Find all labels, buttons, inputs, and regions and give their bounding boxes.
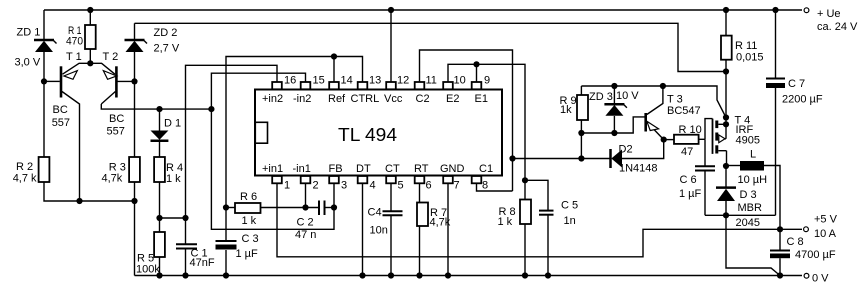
resistor R2 [39, 157, 50, 182]
svg-text:1k: 1k [560, 104, 572, 116]
svg-text:11: 11 [426, 75, 437, 87]
wire R2 bottom to R3 column [44, 182, 135, 201]
svg-text:FB: FB [329, 163, 343, 175]
svg-text:4700 µF: 4700 µF [795, 249, 836, 261]
label 0V [812, 273, 829, 285]
label D1 [164, 118, 181, 130]
label C3 [236, 233, 259, 260]
node -in1 pin2 tap [302, 204, 308, 210]
svg-text:1 k: 1 k [166, 173, 181, 185]
label R3 [102, 162, 126, 185]
wire pin2 stub [305, 184, 307, 208]
svg-text:C1: C1 [479, 163, 493, 175]
wire GND pin7 to ground [447, 184, 449, 276]
svg-text:T 1: T 1 [66, 51, 82, 63]
svg-text:E2: E2 [446, 93, 459, 105]
node ZD3 bottom [611, 130, 617, 136]
svg-text:+ Ue: + Ue [817, 8, 841, 20]
wire R5 stubs [159, 218, 161, 276]
resistor R5 [154, 232, 165, 257]
node rail-R1 [87, 7, 93, 13]
node collectors D2 tap [509, 155, 515, 161]
label C8 [787, 236, 836, 261]
svg-text:ZD 2: ZD 2 [154, 27, 178, 39]
node C3 ground [223, 272, 229, 278]
svg-text:BC: BC [109, 113, 124, 125]
resistor R7 [417, 203, 428, 227]
capacitor C3 [216, 241, 237, 250]
label IC top row [262, 93, 488, 105]
resistor R9 [577, 95, 588, 120]
wire DT pin4 to ground [362, 184, 364, 276]
node R7 ground [416, 272, 422, 278]
wire C1 stubs to ground [185, 218, 187, 276]
label R7 [430, 207, 451, 229]
svg-text:14: 14 [341, 75, 353, 87]
node R8 ground [522, 272, 528, 278]
svg-text:C 5: C 5 [561, 200, 578, 212]
svg-text:3,0 V: 3,0 V [15, 57, 41, 69]
node C1 +in2 junction [182, 215, 188, 221]
diode D2 [611, 149, 623, 168]
svg-text:T 3: T 3 [667, 94, 683, 106]
svg-text:Ref: Ref [328, 93, 346, 105]
node emitters junction [87, 60, 93, 66]
node T2 base [131, 78, 137, 84]
svg-text:T 2: T 2 [103, 51, 119, 63]
node T1 base [41, 78, 47, 84]
svg-text:D 1: D 1 [164, 118, 181, 130]
wire C1 column and +in2 riser to pin 16 [186, 65, 278, 218]
label ZD2 [154, 27, 180, 55]
pin 10 [443, 82, 453, 89]
node T3 emitter R10 junction [661, 137, 667, 143]
wire 0V rail [135, 275, 803, 277]
node DT ground [359, 272, 365, 278]
wire C5 branch [525, 180, 548, 275]
wire R8 bottom to ground [524, 224, 526, 276]
node R11 bottom ZD2 rail [723, 68, 729, 74]
inductor L [740, 161, 764, 171]
svg-text:+5 V: +5 V [814, 214, 838, 226]
svg-text:-in1: -in1 [293, 163, 311, 175]
svg-text:RT: RT [414, 163, 429, 175]
svg-text:16: 16 [284, 75, 296, 87]
capacitor C5 [539, 211, 554, 215]
svg-text:1: 1 [284, 180, 290, 192]
svg-text:CTRL: CTRL [351, 93, 380, 105]
label ZD3 [589, 90, 639, 103]
transistor T1 [44, 63, 90, 201]
svg-text:TL 494: TL 494 [338, 124, 397, 145]
terminal +Ue [804, 8, 809, 13]
pin 14 [329, 82, 339, 89]
label R11 [735, 40, 764, 64]
svg-text:BC: BC [53, 104, 68, 116]
label C4 [368, 207, 388, 237]
svg-text:2200 µF: 2200 µF [782, 94, 823, 106]
svg-text:MBR: MBR [738, 202, 763, 214]
pin 2 [301, 176, 311, 183]
node FB C2 junction [331, 204, 337, 210]
svg-text:R 6: R 6 [240, 191, 257, 203]
svg-text:1 k: 1 k [498, 216, 513, 228]
node R5 ground [156, 272, 162, 278]
zener diode ZD3 [604, 104, 627, 116]
label T2 [103, 51, 125, 138]
svg-text:R 11: R 11 [735, 40, 757, 52]
label R1 [66, 25, 83, 48]
capacitor C1 [176, 244, 197, 248]
resistor R11 [721, 36, 732, 60]
label T4 [735, 115, 760, 147]
svg-text:7: 7 [454, 180, 460, 192]
svg-text:10n: 10n [370, 225, 388, 237]
wire C6 column [704, 139, 706, 215]
svg-text:4,7 k: 4,7 k [13, 173, 37, 185]
svg-text:+in2: +in2 [262, 93, 283, 105]
svg-text:5: 5 [398, 180, 404, 192]
svg-text:CT: CT [385, 163, 400, 175]
node C5 ground [545, 272, 551, 278]
svg-text:GND: GND [440, 163, 465, 175]
svg-text:C4: C4 [368, 207, 382, 219]
wire ZD2 rail to R11 bottom [135, 23, 727, 71]
transistor T3 [646, 86, 664, 140]
wire D3 anode to ground jog [726, 201, 780, 276]
svg-text:10 µH: 10 µH [738, 174, 768, 186]
label T1 [52, 51, 82, 129]
svg-text:C 7: C 7 [788, 78, 805, 90]
wire R1 stubs [89, 10, 91, 63]
svg-text:15: 15 [313, 75, 325, 87]
label R6 [240, 191, 257, 227]
node R9 bottom ZD3 line [578, 130, 584, 136]
svg-text:0,015: 0,015 [736, 52, 764, 64]
svg-text:4,7k: 4,7k [430, 217, 451, 229]
svg-text:557: 557 [52, 117, 70, 129]
svg-text:4: 4 [370, 180, 376, 192]
svg-text:C2: C2 [416, 93, 430, 105]
svg-text:470: 470 [66, 36, 83, 48]
wire R4 bottom to R5/C1 row [160, 182, 186, 218]
svg-text:ZD 3: ZD 3 [589, 91, 613, 103]
capacitor C4 [383, 211, 403, 215]
svg-text:D 3: D 3 [740, 189, 757, 201]
wire source line y86 [581, 86, 726, 118]
wire Ref-CTRL line down to R6/C3 [226, 57, 363, 208]
svg-text:100k: 100k [136, 264, 160, 276]
zener diode ZD2 [125, 40, 148, 52]
wire R10 left stub [664, 139, 674, 141]
wire ZD1 column [43, 10, 45, 157]
node source lead [723, 121, 729, 127]
wire -in2 pin15 to FB link [211, 73, 334, 229]
wire D3 cathode stub [725, 166, 727, 187]
svg-text:E1: E1 [475, 93, 488, 105]
wire R10 right to gate [699, 138, 705, 140]
wire C2 right to FB column [325, 207, 335, 209]
mosfet T4 [713, 119, 727, 154]
svg-text:ca. 24 V: ca. 24 V [817, 21, 858, 33]
pin 8 [472, 176, 482, 183]
label R10 [679, 124, 702, 158]
node rail-R11 [723, 7, 729, 13]
wire ground return line y215 [705, 214, 776, 216]
svg-text:BC547: BC547 [667, 105, 701, 117]
label T3 [667, 94, 701, 118]
svg-text:2045: 2045 [736, 217, 760, 229]
svg-text:2,7 V: 2,7 V [154, 43, 180, 55]
node C4 ground [388, 272, 394, 278]
node C8 ground [777, 272, 783, 278]
svg-text:9: 9 [484, 75, 490, 87]
label +5V [814, 214, 838, 241]
label C6 [679, 174, 702, 200]
svg-text:R 10: R 10 [679, 124, 702, 136]
op-amp U1 TL494 body [255, 90, 502, 176]
label C7 [782, 78, 823, 106]
svg-text:13: 13 [369, 75, 381, 87]
pin 1 [272, 176, 282, 183]
wire D1 cathode to R4 [159, 109, 161, 157]
label R8 [498, 206, 516, 228]
node T3 collector top [660, 83, 666, 89]
capacitor C6 [695, 166, 715, 170]
capacitor C2 [319, 201, 325, 216]
wire +in1 pin1 to +5V sense [277, 184, 802, 257]
node +5V C8 tap [777, 226, 783, 232]
node rail-Vcc [388, 7, 394, 13]
svg-text:C 2: C 2 [297, 217, 314, 229]
wire R3 bottom to 0V rail [134, 182, 136, 276]
svg-text:L: L [750, 149, 756, 161]
node E1 tap [473, 61, 479, 67]
node R4-R5-C1 junction [156, 215, 162, 221]
svg-text:DT: DT [356, 163, 371, 175]
wire ZD3 line to T3 base [581, 117, 644, 133]
svg-text:0 V: 0 V [812, 273, 829, 285]
pin 16 [272, 82, 282, 89]
label TL494 [338, 124, 397, 145]
pin 7 [443, 176, 453, 183]
wire E2 E1 line to R8 column [448, 64, 525, 199]
label C1 [190, 248, 215, 270]
node T1 collector bottom [76, 198, 82, 204]
pin 11 [415, 82, 425, 89]
node R6-C3 junction [223, 204, 229, 210]
capacitor C7 [766, 79, 785, 89]
svg-text:C 6: C 6 [680, 174, 697, 186]
svg-text:ZD 1: ZD 1 [17, 27, 41, 39]
svg-text:1 µF: 1 µF [679, 188, 702, 200]
label R2 [13, 161, 37, 185]
label C2 [295, 217, 316, 242]
label R4 [166, 162, 183, 185]
resistor R4 [154, 157, 165, 182]
svg-text:+in1: +in1 [262, 163, 283, 175]
label C5 [561, 200, 578, 228]
svg-text:4905: 4905 [736, 135, 760, 147]
pin 13 [358, 82, 368, 89]
node GND ground [445, 272, 451, 278]
node R8-C5 junction [522, 177, 528, 183]
svg-text:2: 2 [313, 180, 319, 192]
resistor R3 [129, 157, 140, 182]
wire C3 column to ground [225, 208, 227, 276]
pin 3 [329, 176, 339, 183]
svg-text:3: 3 [341, 180, 347, 192]
wire Ref pin14 stub [333, 57, 335, 83]
label pin numbers top [284, 75, 490, 87]
svg-text:10 V: 10 V [616, 90, 639, 102]
label L [738, 149, 768, 187]
wire pin8 jog [477, 184, 513, 192]
label R5 [136, 253, 160, 276]
svg-text:1N4148: 1N4148 [619, 163, 658, 175]
pin 15 [301, 82, 311, 89]
wire pin9 stub [476, 64, 478, 82]
node R3 column y201 [131, 198, 137, 204]
label pin numbers bottom [284, 180, 488, 192]
svg-text:8: 8 [482, 180, 488, 192]
terminal +5V [804, 227, 809, 232]
label D2 [619, 144, 658, 175]
wire ZD3 stubs [613, 86, 615, 133]
pin 5 [386, 176, 396, 183]
pin 6 [415, 176, 425, 183]
node rail-C7 [772, 7, 778, 13]
label +Ue [817, 8, 858, 33]
wire C8 column [779, 229, 781, 275]
terminal 0V [804, 273, 809, 278]
svg-text:47 n: 47 n [295, 229, 316, 241]
svg-text:557: 557 [107, 126, 125, 138]
wire gate riser [705, 119, 713, 140]
svg-text:10 A: 10 A [814, 228, 837, 240]
svg-text:D2: D2 [619, 144, 633, 156]
wire top +24V rail [44, 9, 802, 11]
svg-text:-in2: -in2 [293, 93, 311, 105]
svg-text:47: 47 [681, 146, 693, 158]
node -in2 link tap [208, 106, 214, 112]
label IC bottom row [262, 163, 493, 175]
pin 9 [472, 82, 482, 89]
wire T4 drain to switch node [726, 151, 728, 166]
wire D2 line from collectors [513, 158, 611, 160]
node source diag [723, 114, 729, 120]
wire CT pin5 to C4 [390, 184, 392, 276]
transistor T2 [90, 63, 134, 104]
node D3 anode C6 C7 junction [723, 212, 729, 218]
wire D2 anode to T3 emitter [622, 140, 664, 159]
resistor R10 [674, 135, 699, 144]
node Ref tap [331, 53, 337, 59]
node C1 ground [182, 272, 188, 278]
wire R6 left stub [226, 207, 235, 209]
wire pin11 C2out over to right column [420, 50, 513, 191]
wire L leads [726, 166, 780, 230]
wire RT pin6 to R7 [419, 184, 421, 276]
pin 4 [358, 176, 368, 183]
svg-text:1n: 1n [564, 215, 576, 227]
diode D1 [151, 131, 169, 141]
wire R6 right to C2 left [261, 207, 320, 209]
wire R11 column [725, 10, 727, 139]
svg-text:4,7k: 4,7k [102, 173, 123, 185]
capacitor C8 [770, 251, 790, 259]
node R9 link D2 line [578, 155, 584, 161]
node D1 anode tap [156, 106, 162, 112]
node ZD3 top [611, 83, 617, 89]
svg-text:R 2: R 2 [16, 161, 33, 173]
svg-text:47nF: 47nF [190, 257, 215, 269]
label D3 [736, 189, 763, 229]
svg-text:C 3: C 3 [242, 233, 259, 245]
svg-text:10: 10 [454, 75, 466, 87]
svg-text:6: 6 [426, 180, 432, 192]
pin 12 [386, 82, 396, 89]
diode D3 [716, 188, 736, 201]
resistor R1 [85, 25, 96, 49]
wire ZD2 column [134, 23, 136, 157]
resistor R8 [520, 200, 531, 225]
node switch node [723, 163, 729, 169]
wire C7 column [775, 10, 777, 215]
wire R9 column [580, 86, 582, 159]
resistor R6 [235, 203, 261, 213]
wire T2 collector line to FB column [101, 104, 211, 109]
svg-text:1 µF: 1 µF [236, 248, 259, 260]
label ZD1 [15, 27, 41, 69]
zener diode ZD1 [34, 40, 57, 52]
svg-text:Vcc: Vcc [384, 93, 403, 105]
label R9 [560, 95, 577, 116]
wire Vcc pin12 to rail [390, 10, 392, 82]
svg-text:C 8: C 8 [787, 236, 804, 248]
svg-text:12: 12 [397, 75, 409, 87]
svg-text:1 k: 1 k [242, 215, 257, 227]
